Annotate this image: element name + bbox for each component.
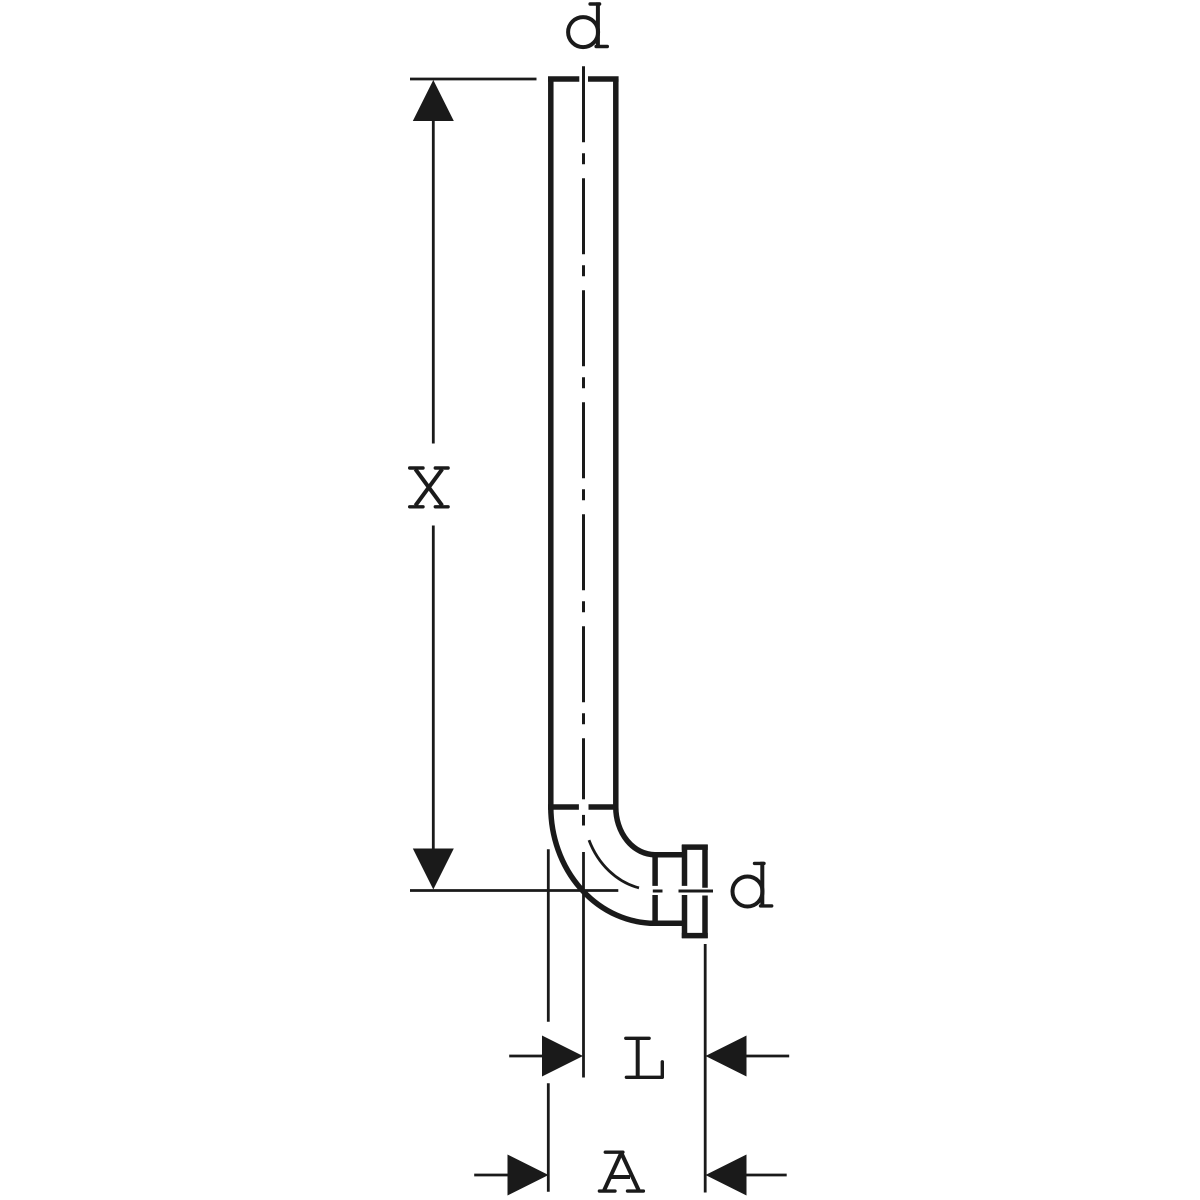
pipe right wall bbox=[613, 79, 619, 807]
flange left edge bbox=[682, 845, 688, 938]
horizontal centerline dash bbox=[679, 890, 714, 893]
flange top edge bbox=[682, 844, 708, 850]
pipe left wall bbox=[548, 79, 554, 807]
label L bbox=[626, 1038, 663, 1077]
dimension A left arrowhead bbox=[508, 1155, 549, 1196]
dimension L right tail bbox=[746, 1055, 789, 1058]
extension line left outer edge bbox=[547, 849, 550, 1191]
label X bbox=[410, 468, 448, 507]
dimension L left tail bbox=[509, 1055, 545, 1058]
pipe joint line bbox=[548, 804, 619, 810]
dimension X vertical line upper bbox=[432, 120, 435, 444]
dimension X baseline bbox=[410, 889, 618, 892]
dimension A left tail bbox=[474, 1174, 508, 1177]
dimension L left arrowhead bbox=[542, 1036, 583, 1077]
dimension A right tail bbox=[746, 1174, 787, 1177]
dimension X top line bbox=[410, 78, 537, 81]
pipe centerline dot segment bbox=[582, 815, 585, 826]
outer elbow curve bbox=[551, 807, 655, 923]
dimension L right arrowhead bbox=[706, 1036, 747, 1077]
pipe vertical centerline (dash-dot) bbox=[582, 66, 585, 799]
dimension A right arrowhead bbox=[706, 1155, 747, 1196]
label d top bbox=[568, 2, 607, 48]
elbow mid surface arc bbox=[589, 840, 639, 888]
label A bbox=[599, 1152, 643, 1191]
flange right edge bbox=[702, 845, 708, 938]
socket stub bottom edge bbox=[652, 921, 684, 927]
pipe top edge bbox=[548, 76, 619, 82]
flange bottom edge bbox=[682, 933, 708, 939]
dimension X vertical line lower bbox=[432, 526, 435, 849]
dimension X bottom arrowhead bbox=[413, 849, 454, 890]
horizontal centerline dot bbox=[653, 890, 663, 893]
label d right bbox=[733, 862, 772, 908]
inner elbow curve bbox=[616, 807, 655, 855]
dimension X top arrowhead bbox=[413, 80, 454, 121]
socket stub top edge bbox=[652, 852, 684, 858]
extension line right flange edge bbox=[704, 944, 707, 1193]
socket stub left edge bbox=[652, 852, 658, 926]
centerline extension below elbow bbox=[582, 852, 585, 1078]
